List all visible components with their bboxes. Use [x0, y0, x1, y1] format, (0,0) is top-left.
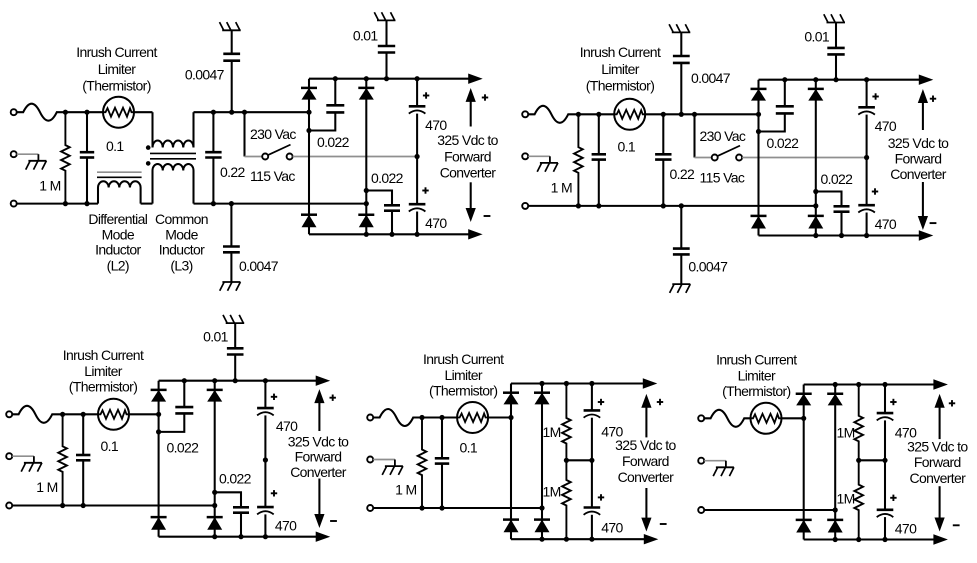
svg-text:1 M: 1 M: [551, 180, 572, 196]
chassis ground symbol (0.01, circuit 1): [377, 19, 396, 21]
capacitor 0.01 (Y-cap on rail, circuit 2): [835, 23, 837, 48]
output arrow down (-) c2: [922, 182, 924, 218]
polarity + upper 470 c3: [271, 396, 277, 398]
diode D4 (bottom-right of bridge): [358, 213, 374, 216]
svg-text:Common: Common: [155, 211, 208, 227]
svg-text:Inrush Current: Inrush Current: [63, 347, 144, 363]
resistor 1M (input discharge, circuit 2): [574, 114, 583, 206]
wire thermistor to bridge c5: [782, 417, 804, 419]
svg-text:Limiter: Limiter: [444, 367, 482, 383]
svg-text:Converter: Converter: [618, 469, 675, 485]
node dots midpoint c5: [856, 458, 861, 463]
wire top input to thermistor c4: [422, 416, 457, 418]
svg-text:0.0047: 0.0047: [691, 70, 731, 86]
capacitor 0.022 (upper snubber, circuit 1): [334, 79, 336, 106]
svg-text:0.022: 0.022: [821, 171, 854, 187]
capacitor 470 upper bulk (circuit 3): [264, 381, 266, 408]
node input-bottom junction dots c2: [576, 203, 581, 208]
capacitor 470 lower bulk (circuit 5): [884, 460, 886, 510]
node bridge input top c2: [756, 112, 761, 117]
positive output rail wire c5: [804, 383, 935, 385]
svg-text:Inrush Current: Inrush Current: [580, 44, 661, 60]
svg-text:0.022: 0.022: [317, 134, 350, 150]
diode D11 (bottom-left of bridge c3): [151, 516, 167, 519]
diode D5 (top-left of bridge c2): [751, 88, 767, 91]
negative rail arrowhead c2: [919, 231, 932, 240]
positive output rail wire: [309, 78, 471, 80]
svg-text:(Thermistor): (Thermistor): [69, 379, 137, 395]
wire bottom input c2: [528, 205, 816, 207]
wire L3 to bridge top: [194, 111, 310, 113]
node bridge input bottom c4: [539, 505, 544, 510]
diode D17 (top-left of bridge c5): [796, 392, 812, 395]
wire bottom input c5: [704, 509, 835, 511]
node input-top junction dots: [63, 110, 68, 115]
svg-text:230 Vac: 230 Vac: [700, 128, 746, 144]
svg-text:Forward: Forward: [895, 150, 942, 166]
positive output rail wire c3: [159, 380, 317, 382]
resistor 1M upper balance (circuit 5): [854, 385, 863, 461]
svg-text:(Thermistor): (Thermistor): [722, 383, 790, 399]
positive output rail wire c2: [759, 79, 921, 81]
circuit 3 input terminal (line) with source squiggle: [6, 411, 12, 417]
chassis ground symbol (input, circuit 1): [28, 160, 46, 162]
node dots lower 0.022 c3: [212, 490, 217, 495]
resistor 1M (input discharge, circuit 1): [61, 112, 70, 203]
circuit 4 input terminal (line) with source squiggle: [367, 415, 373, 421]
node bridge input bottom: [364, 201, 369, 206]
node dots midpoint c4: [564, 458, 569, 463]
svg-text:470: 470: [601, 519, 623, 535]
resistor 1M (input discharge, circuit 3): [58, 414, 67, 505]
node dots upper 0.022: [333, 76, 338, 81]
node input-bottom junction dots c4: [419, 505, 424, 510]
node input-top junction dots c2: [576, 112, 581, 117]
svg-text:470: 470: [276, 418, 298, 434]
node input-top junction dots c3: [60, 412, 65, 417]
wire bottom input c3: [12, 504, 215, 506]
inductor L3 bottom winding: [151, 171, 153, 204]
negative rail arrowhead: [469, 230, 482, 239]
svg-text:470: 470: [895, 520, 917, 536]
output arrow down (-) c4: [645, 488, 647, 519]
svg-text:0.1: 0.1: [618, 138, 636, 154]
chassis ground symbol (bottom Y-cap, circuit 2): [672, 283, 690, 285]
wire midpoint balance to caps c5: [859, 459, 885, 461]
diode D14 (top-right of bridge c4): [534, 391, 550, 394]
L3 phase dot bottom: [146, 161, 151, 166]
svg-text:Inrush Current: Inrush Current: [423, 351, 504, 367]
svg-text:(L3): (L3): [170, 257, 192, 273]
svg-text:0.022: 0.022: [167, 439, 200, 455]
capacitor 0.22 (X-cap, circuit 1): [212, 112, 214, 152]
svg-text:325 Vdc to: 325 Vdc to: [288, 433, 349, 449]
capacitor 470 lower bulk (circuit 4): [591, 460, 593, 507]
polarity + output c4: [657, 401, 663, 403]
capacitor 470 lower bulk (circuit 3): [264, 460, 266, 507]
node dots on rails circuit 1: [364, 76, 369, 81]
svg-text:(L2): (L2): [107, 257, 129, 273]
svg-text:230 Vac: 230 Vac: [250, 126, 296, 142]
chassis ground symbol (bottom Y-cap, circuit 1): [222, 281, 240, 283]
negative output rail wire: [309, 233, 471, 235]
capacitor 0.0047 (Y-cap bottom, circuit 2): [680, 206, 682, 249]
output arrow up (+) c4: [645, 406, 647, 437]
diode D12 (bottom-right of bridge c3): [207, 516, 223, 519]
svg-text:115 Vac: 115 Vac: [250, 168, 295, 184]
chassis ground symbol (top Y-cap, circuit 1): [222, 29, 241, 31]
capacitor 470 upper bulk (circuit 4): [591, 384, 593, 411]
chassis ground symbol (input, circuit 4): [385, 465, 403, 467]
polarity + lower 470 c2: [872, 191, 878, 193]
wire thermistor to bridge c4: [488, 416, 511, 418]
polarity + lower 470: [422, 190, 428, 192]
negative output rail wire c3: [159, 536, 317, 538]
ground terminal (middle) circuit 4: [367, 457, 373, 463]
capacitor 0.022 (upper snubber, circuit 3): [183, 381, 185, 407]
svg-text:0.022: 0.022: [371, 170, 404, 186]
chassis ground symbol (input, circuit 2): [540, 162, 558, 164]
node bridge input top c3: [156, 412, 161, 417]
svg-text:Limiter: Limiter: [601, 61, 639, 77]
svg-text:(Thermistor): (Thermistor): [82, 77, 150, 93]
node bridge input top c4: [508, 415, 513, 420]
svg-text:Converter: Converter: [890, 166, 947, 182]
inductor L2 core lines: [97, 171, 142, 173]
capacitor 0.22 (X-cap, circuit 2): [662, 114, 664, 154]
svg-text:0.1: 0.1: [460, 439, 478, 455]
positive rail arrowhead c2: [919, 75, 932, 84]
polarity - output c2: [930, 222, 937, 224]
capacitor 0.1 (X-cap, circuit 4): [441, 418, 443, 459]
L3 phase dot top: [146, 145, 151, 150]
wire gray 115V center-tap line c2: [742, 157, 867, 159]
svg-text:(Thermistor): (Thermistor): [429, 382, 497, 398]
diode D1 (top-left of bridge): [301, 87, 317, 90]
svg-text:470: 470: [275, 518, 297, 534]
polarity + output c2: [930, 98, 936, 100]
svg-text:325 Vdc to: 325 Vdc to: [907, 438, 968, 454]
thermistor RT4 (inrush current limiter): [457, 402, 488, 433]
svg-text:325 Vdc to: 325 Vdc to: [888, 135, 949, 151]
bridge left column wire: [308, 79, 310, 235]
negative rail arrowhead c5: [934, 535, 947, 544]
wire top input to thermistor c2: [578, 113, 614, 115]
output arrow up (+): [470, 100, 472, 126]
diode D7 (bottom-left of bridge c2): [751, 215, 767, 218]
resistor 1M lower balance (circuit 4): [562, 460, 571, 539]
capacitor 0.1 (X-cap, circuit 3): [82, 414, 84, 455]
capacitor 0.0047 (Y-cap bottom, circuit 1): [230, 204, 232, 247]
circuit 1 input terminal (neutral, bottom): [11, 201, 17, 207]
svg-text:0.01: 0.01: [353, 27, 379, 43]
svg-text:Differential: Differential: [88, 211, 147, 227]
node bridge input bottom c5: [833, 507, 838, 512]
node midpoint of bulk caps c2: [864, 155, 869, 160]
node input-bottom junction dots c3: [60, 503, 65, 508]
wire gray 115V center-tap line: [293, 156, 418, 158]
polarity + output: [482, 97, 488, 99]
bridge left column wire c3: [158, 381, 160, 537]
diode D9 (top-left of bridge c3): [151, 389, 167, 392]
svg-text:470: 470: [875, 118, 897, 134]
svg-text:0.0047: 0.0047: [688, 259, 728, 275]
capacitor 470 upper bulk (circuit 5): [884, 385, 886, 414]
svg-text:470: 470: [425, 215, 447, 231]
wire thermistor to L3: [134, 111, 153, 113]
output arrow down (-) c5: [939, 486, 941, 519]
ground terminal (middle) circuit 2: [522, 153, 528, 159]
capacitor 0.022 (lower snubber, circuit 1): [366, 191, 392, 206]
node dots filter c2: [661, 112, 666, 117]
polarity + upper 470 c4: [598, 401, 604, 403]
polarity + upper 470 c2: [872, 96, 878, 98]
capacitor 0.1 (X-cap, circuit 1): [86, 112, 88, 152]
polarity - output: [484, 215, 491, 217]
output arrow up (+) c5: [939, 406, 941, 439]
ground terminal (middle) with chassis ground: [11, 151, 17, 157]
svg-text:Limiter: Limiter: [98, 61, 136, 77]
capacitor 0.01 (Y-cap on rail, circuit 1): [385, 20, 387, 46]
positive rail arrowhead c4: [643, 379, 656, 388]
switch branch wire down c2: [693, 114, 695, 157]
circuit 2 input terminal (neutral, bottom): [522, 203, 528, 209]
svg-text:0.0047: 0.0047: [239, 258, 279, 274]
diode D18 (top-right of bridge c5): [827, 392, 843, 395]
thermistor RT2 (inrush current limiter): [614, 99, 645, 130]
polarity - output c4: [660, 523, 667, 525]
switch SW1 voltage selector contacts and lever: [262, 154, 268, 160]
svg-text:Limiter: Limiter: [84, 363, 122, 379]
capacitor 470 upper bulk (circuit 1): [416, 79, 418, 107]
bridge right column wire c5: [834, 385, 836, 540]
circuit 3 input terminal (neutral, bottom): [6, 503, 12, 509]
switch SW2 voltage selector contacts and lever: [712, 155, 718, 161]
polarity + upper 470 c5: [890, 401, 896, 403]
svg-text:0.1: 0.1: [101, 438, 119, 454]
circuit 5 input terminal (neutral, bottom): [698, 507, 704, 513]
negative output rail wire c4: [511, 538, 645, 540]
inductor L2 differential mode (winding): [97, 188, 99, 204]
wire thermistor to bridge c2: [645, 113, 758, 115]
svg-text:1M: 1M: [543, 424, 561, 440]
bridge right column wire c2: [815, 80, 817, 236]
circuit 4 input terminal (neutral, bottom): [367, 505, 373, 511]
resistor 1M lower balance (circuit 5): [854, 460, 863, 539]
diode D19 (bottom-left of bridge c5): [796, 519, 812, 522]
wire top input to thermistor: [65, 111, 103, 113]
svg-text:Forward: Forward: [622, 453, 669, 469]
node midpoint of bulk caps c3: [263, 457, 268, 462]
svg-text:0.22: 0.22: [220, 164, 246, 180]
thermistor RT3 (inrush current limiter): [98, 399, 129, 430]
positive rail arrowhead: [469, 74, 482, 83]
wire thermistor to bridge c3: [129, 413, 159, 415]
bridge left column wire c4: [510, 384, 512, 540]
wire switch stub c2: [695, 157, 712, 159]
svg-text:1M: 1M: [836, 424, 854, 440]
svg-text:0.0047: 0.0047: [185, 66, 225, 82]
chassis ground symbol (input, circuit 5): [716, 466, 734, 468]
diode D3 (bottom-left of bridge): [301, 213, 317, 216]
wire bottom input: [17, 203, 98, 205]
diode D20 (bottom-right of bridge c5): [827, 519, 843, 522]
bridge right column wire c3: [214, 381, 216, 537]
capacitor 0.022 (lower snubber, circuit 3): [215, 492, 241, 507]
svg-text:Forward: Forward: [295, 449, 342, 465]
wire switch stub: [245, 156, 263, 158]
inductor L3 common mode top winding: [151, 112, 153, 147]
polarity + output c5: [949, 402, 955, 404]
chassis ground symbol (0.01, circuit 2): [827, 22, 846, 24]
wire midpoint balance to caps c4: [566, 459, 592, 461]
node dots on rails circuit 5: [833, 382, 838, 387]
svg-text:Inductor: Inductor: [159, 242, 205, 258]
chassis ground symbol (input, circuit 3): [24, 462, 42, 464]
svg-text:Inrush Current: Inrush Current: [716, 352, 797, 368]
node 0.01 on rail c3: [233, 378, 238, 383]
negative rail arrowhead c3: [316, 532, 329, 541]
capacitor 0.0047 (Y-cap top, circuit 2): [680, 32, 682, 56]
circuit 1 input terminal (line) with source squiggle: [11, 109, 17, 115]
svg-text:0.1: 0.1: [106, 138, 124, 154]
thermistor RT1 (inrush current limiter): [103, 97, 134, 128]
capacitor 470 upper bulk (circuit 2): [866, 80, 868, 108]
svg-text:Forward: Forward: [914, 454, 961, 470]
node 0.01 on rail: [384, 76, 389, 81]
node bridge input top: [306, 110, 311, 115]
inductor L3 core lines: [150, 152, 196, 154]
node dots on rails circuit 3: [212, 378, 217, 383]
wire top input to thermistor c3: [63, 413, 98, 415]
node dots on rails circuit 4: [539, 381, 544, 386]
svg-text:0.01: 0.01: [804, 28, 830, 44]
resistor 1M (input discharge, circuit 4): [418, 418, 427, 509]
svg-text:Inrush Current: Inrush Current: [76, 44, 157, 60]
capacitor 470 lower bulk (circuit 2): [866, 158, 868, 206]
svg-text:Converter: Converter: [290, 464, 347, 480]
polarity + lower 470 c5: [890, 497, 896, 499]
node dots lower 0.022 c2: [813, 189, 818, 194]
svg-text:Converter: Converter: [440, 165, 497, 181]
svg-text:1M: 1M: [836, 491, 854, 507]
circuit 5 input terminal (line) with source squiggle: [698, 415, 704, 421]
diode D15 (bottom-left of bridge c4): [503, 518, 519, 521]
ground terminal (middle) circuit 5: [698, 458, 704, 464]
capacitor 0.022 (upper snubber, circuit 2): [784, 80, 786, 107]
svg-text:Forward: Forward: [444, 149, 491, 165]
svg-text:325 Vdc to: 325 Vdc to: [437, 132, 498, 148]
polarity - output c5: [953, 524, 960, 526]
svg-text:0.01: 0.01: [203, 329, 229, 345]
svg-text:470: 470: [425, 117, 447, 133]
diode D13 (top-left of bridge c4): [503, 391, 519, 394]
capacitor 470 lower bulk (circuit 1): [416, 157, 418, 205]
output arrow down (-) c3: [318, 479, 320, 516]
output arrow up (+) c2: [922, 102, 924, 131]
svg-text:1 M: 1 M: [39, 178, 60, 194]
node 0.01 on rail c2: [833, 77, 838, 82]
svg-text:Mode: Mode: [102, 226, 135, 242]
capacitor 0.01 (Y-cap on rail, circuit 3): [234, 323, 236, 348]
output arrow up (+) c3: [318, 402, 320, 431]
capacitor 0.1 (X-cap, circuit 2): [598, 114, 600, 154]
chassis ground symbol (top Y-cap, circuit 2): [672, 31, 691, 33]
svg-text:Mode: Mode: [165, 226, 198, 242]
wire bottom input c4: [373, 507, 542, 509]
polarity + lower 470 c3: [271, 492, 277, 494]
wire L2 to L3 bottom: [141, 203, 153, 205]
node dots upper 0.022 c3: [182, 378, 187, 383]
node bridge input top c5: [801, 416, 806, 421]
negative output rail wire c2: [759, 234, 921, 236]
positive output rail wire c4: [511, 382, 644, 384]
polarity + lower 470 c4: [598, 496, 604, 498]
diode D16 (bottom-right of bridge c4): [534, 518, 550, 521]
diode D10 (top-right of bridge c3): [207, 389, 223, 392]
node dots on rails circuit 2: [813, 77, 818, 82]
svg-text:Limiter: Limiter: [738, 368, 776, 384]
node bridge input bottom c2: [813, 203, 818, 208]
svg-text:325 Vdc to: 325 Vdc to: [615, 437, 676, 453]
output arrow down (-): [470, 182, 472, 209]
bridge right column wire: [365, 79, 367, 235]
positive rail arrowhead c3: [316, 376, 329, 385]
node dots upper 0.022 c2: [782, 77, 787, 82]
positive rail arrowhead c5: [934, 380, 947, 389]
switch branch wire down: [243, 112, 245, 156]
negative output rail wire c5: [804, 538, 935, 540]
polarity - output c3: [330, 520, 337, 522]
bridge right column wire c4: [541, 384, 543, 540]
ground terminal (middle) circuit 3: [6, 453, 12, 459]
svg-text:0.22: 0.22: [670, 166, 696, 182]
svg-text:1M: 1M: [543, 484, 561, 500]
svg-text:0.022: 0.022: [219, 471, 252, 487]
chassis ground symbol (0.01, circuit 3): [226, 322, 245, 324]
svg-text:115 Vac: 115 Vac: [700, 170, 745, 186]
node dots lower 0.022: [364, 188, 369, 193]
svg-text:Inductor: Inductor: [95, 242, 141, 258]
svg-text:1 M: 1 M: [395, 481, 416, 497]
node dots after L3: [211, 110, 216, 115]
bridge left column wire c2: [757, 80, 759, 236]
bridge left column wire c5: [803, 385, 805, 540]
svg-text:1 M: 1 M: [36, 479, 57, 495]
svg-text:(Thermistor): (Thermistor): [586, 77, 654, 93]
negative rail arrowhead c4: [644, 535, 657, 544]
svg-text:0.022: 0.022: [767, 135, 800, 151]
resistor 1M upper balance (circuit 4): [562, 384, 571, 461]
polarity + output c3: [330, 397, 336, 399]
node input-top junction dots c4: [419, 415, 424, 420]
diode D2 (top-right of bridge): [358, 87, 374, 90]
diode D8 (bottom-right of bridge c2): [808, 215, 824, 218]
polarity + upper 470: [423, 95, 429, 97]
diode D6 (top-right of bridge c2): [808, 88, 824, 91]
svg-text:Converter: Converter: [909, 470, 966, 486]
svg-text:470: 470: [875, 216, 897, 232]
circuit 2 input terminal (line) with source squiggle: [522, 111, 528, 117]
node bridge input bottom c3: [212, 503, 217, 508]
node input-bottom junction dots: [63, 201, 68, 206]
capacitor 0.0047 (Y-cap top, circuit 1): [231, 30, 233, 54]
capacitor 0.022 (lower snubber, circuit 2): [816, 192, 842, 207]
node midpoint of bulk caps: [415, 154, 420, 159]
thermistor RT5 (inrush current limiter): [751, 403, 782, 434]
wire L3 to bridge bottom: [194, 203, 367, 205]
